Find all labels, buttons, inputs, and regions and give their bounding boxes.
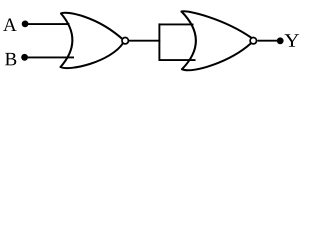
wire A <box>27 23 70 25</box>
NOR gate U2 output bubble <box>250 38 256 44</box>
wire from U1 bubble to branch <box>129 40 160 42</box>
NOR gate U1 output bubble <box>122 38 128 44</box>
branch vertical wire <box>158 23 160 61</box>
node A label <box>3 18 16 31</box>
node Y terminal dot <box>277 37 284 44</box>
wire B <box>27 56 74 58</box>
branch bottom wire <box>159 59 196 61</box>
node Y label <box>285 34 300 46</box>
node B terminal dot <box>21 54 28 61</box>
NOR gate U1 body <box>61 13 124 68</box>
node A terminal dot <box>22 21 29 28</box>
node B label <box>5 53 16 66</box>
branch top wire <box>159 23 194 25</box>
output wire <box>257 40 277 42</box>
NOR gate U2 body <box>182 11 252 70</box>
